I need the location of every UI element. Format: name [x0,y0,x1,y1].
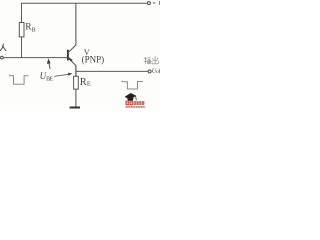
svg-text:RB: RB [25,23,35,34]
ground [70,107,80,109]
logo text 电子科技 [134,101,145,105]
annotation UBE leader arrow [54,73,71,76]
terminal input [1,56,4,59]
resistor RE [74,76,79,89]
output waveform (negative pulse) [122,81,143,89]
label 输出 [144,56,159,64]
label input 入 [0,44,6,51]
svg-text:RE: RE [80,77,91,88]
wire output [76,70,148,72]
svg-text:UBE: UBE [40,71,54,82]
svg-text:Uo(: Uo( [152,68,160,75]
terminal top-right [147,2,150,5]
transistor V base bar [67,50,69,61]
wire top rail [22,3,148,57]
annotation UBE arrow up [47,60,50,69]
resistor RB [19,23,24,37]
wire RE to ground [75,89,77,107]
input waveform (negative pulse) [10,75,29,84]
transistor emitter with PNP arrow [69,57,76,76]
label -U (supply, cut at edge) [153,0,165,7]
logo graduation cap [125,93,137,101]
logo red seals [126,101,133,106]
transistor collector [69,3,76,52]
svg-text:U: U [158,0,160,7]
terminal output [148,70,151,73]
svg-text:(PNP): (PNP) [82,54,105,64]
logo url line [126,106,145,108]
wire emitter to RE [75,66,77,77]
wire input to base [3,57,67,59]
